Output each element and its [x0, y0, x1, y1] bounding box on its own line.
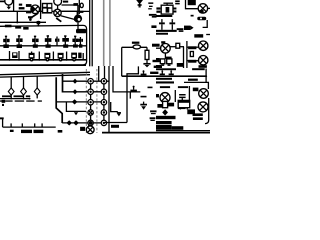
- diode D1: [8, 77, 14, 99]
- capacitor C4: [74, 17, 78, 21]
- label blob: [34, 130, 44, 133]
- label dashes: [153, 60, 161, 62]
- label blob: [21, 130, 32, 133]
- wire: [188, 86, 190, 102]
- plug P2: [73, 89, 78, 94]
- wire: [129, 92, 131, 99]
- wire: [121, 47, 123, 76]
- dark blob: [187, 109, 195, 114]
- label row: [156, 68, 176, 70]
- resistor R5: [145, 47, 149, 63]
- label row: [156, 116, 176, 119]
- wire: [186, 41, 188, 68]
- resistor R4: [5, 25, 12, 28]
- wire: [78, 0, 80, 14]
- transistor Q8: [199, 41, 208, 50]
- label AF OUT: [192, 68, 205, 70]
- main bus right: [122, 75, 207, 77]
- label blob: [10, 130, 14, 132]
- socket pin B4: [101, 110, 106, 115]
- label blob: [111, 125, 119, 128]
- capacitor C5: [15, 26, 21, 28]
- plug P5: [73, 120, 79, 125]
- label dash: [141, 96, 147, 98]
- wire: [26, 12, 31, 14]
- label: [132, 42, 140, 44]
- transistor Q3: [54, 0, 62, 5]
- connector column wires: [90, 81, 92, 126]
- label row: [156, 78, 172, 80]
- capacitor C19: [150, 110, 156, 114]
- wire: [206, 34, 210, 36]
- IF can T1: [42, 3, 53, 14]
- label: [58, 130, 63, 133]
- ground: [8, 5, 10, 7]
- transistor Q6: [198, 4, 210, 13]
- resistor R8: [190, 52, 193, 57]
- capacitor C15: [160, 70, 165, 75]
- coil L4: [45, 35, 52, 48]
- transistor Q5: [74, 15, 82, 23]
- wire: [61, 10, 90, 12]
- shield box (front end) top edge: [0, 25, 87, 65]
- plug P1: [73, 79, 78, 84]
- capacitor C3: [80, 11, 84, 13]
- diode D2: [21, 76, 27, 98]
- label dashes: [0, 100, 42, 101]
- wire: [186, 0, 199, 9]
- label dash: [148, 87, 153, 89]
- capacitor C7: [80, 127, 85, 131]
- wire: [62, 4, 79, 6]
- diagonal wire: [56, 18, 61, 22]
- trimmer CT5: [66, 52, 77, 61]
- coil L2: [16, 35, 22, 48]
- cable bracket A: [56, 77, 62, 123]
- trimmer CT4: [52, 52, 63, 61]
- wire: [0, 21, 46, 23]
- bus wire (inner): [0, 45, 87, 47]
- label bar: [151, 25, 156, 28]
- page border double line: [89, 0, 91, 66]
- coil L5: [55, 37, 59, 46]
- socket pin A2: [88, 89, 93, 94]
- label rows: [193, 113, 203, 116]
- plug P4: [66, 120, 72, 125]
- wire: [113, 66, 140, 92]
- wire: [104, 66, 106, 81]
- tick: [41, 123, 43, 127]
- connector row 3 wire: [56, 101, 106, 103]
- socket pin B2: [101, 89, 106, 94]
- label step: [177, 28, 184, 32]
- wire corner: [203, 20, 208, 27]
- label row: [156, 15, 172, 17]
- capacitor C9: [141, 70, 147, 75]
- connector row 2 wire: [63, 91, 107, 93]
- wire L inside: [111, 102, 118, 112]
- wire: [108, 66, 110, 133]
- dark can T3: [188, 0, 196, 5]
- ground: [117, 113, 121, 116]
- resistor R2: [26, 4, 32, 7]
- shield box (right of connector): [104, 80, 127, 123]
- dark text block: [156, 125, 172, 130]
- potentiometer VR1: [30, 13, 39, 19]
- connector row 1 wire: [63, 80, 110, 82]
- wire: [77, 5, 79, 11]
- plug P3: [72, 99, 78, 104]
- capacitor C12: [159, 19, 165, 30]
- wire gray bus B: [109, 0, 111, 66]
- socket pin A3: [88, 100, 93, 105]
- transistor Q10: [193, 88, 209, 99]
- label: [152, 44, 160, 47]
- shield dashed line: [96, 69, 98, 133]
- transistor Q2: [31, 5, 40, 14]
- IF can T2: [156, 3, 176, 14]
- trimmer CT1: [9, 51, 21, 61]
- speaker SP1: [76, 29, 86, 33]
- label step: [149, 14, 157, 18]
- shield dashed line: [85, 69, 87, 133]
- label row: [178, 86, 188, 88]
- resistor R1: [19, 4, 22, 6]
- wire gray bus A: [103, 0, 105, 66]
- coil L1: [3, 36, 9, 48]
- capacitor C1: [19, 7, 25, 9]
- capacitor C18 (ground cluster): [140, 102, 147, 110]
- capacitor C10: [148, 2, 153, 9]
- resistor R10: [157, 101, 174, 107]
- wire: [98, 66, 100, 81]
- capacitor C13: [169, 19, 175, 30]
- lamp PL1: [133, 45, 141, 49]
- resistor R9: [187, 60, 199, 63]
- wire: [37, 21, 39, 26]
- ground: [143, 64, 150, 68]
- wire right edge: [205, 98, 209, 124]
- wire: [0, 10, 79, 12]
- arrow terminal: [184, 26, 194, 30]
- capacitor C17: [179, 94, 186, 103]
- wire: [122, 46, 147, 48]
- diode D4: [162, 109, 168, 115]
- label row: [156, 121, 172, 124]
- diode D3: [34, 76, 40, 99]
- label: [156, 58, 160, 62]
- coil L3: [32, 36, 39, 48]
- transistor Q1: [5, 0, 13, 5]
- resistor R6: [176, 43, 180, 48]
- resistor R7: [187, 46, 199, 49]
- terminal blob: [197, 17, 206, 20]
- ground: [74, 112, 78, 115]
- transistor Q4: [54, 9, 61, 16]
- transistor Q7: [156, 41, 170, 53]
- label dashes: [172, 126, 184, 130]
- label: [156, 65, 161, 68]
- socket pin A4: [88, 110, 93, 115]
- wire (diagonal to Q5): [61, 16, 75, 20]
- wire: [40, 0, 42, 19]
- label blob: [23, 27, 28, 30]
- wire: [174, 90, 176, 102]
- socket pin B3: [101, 100, 106, 105]
- label row: [156, 33, 168, 35]
- bottom border line: [102, 132, 210, 134]
- label: [188, 79, 198, 81]
- wire: [16, 11, 18, 22]
- dark core: [178, 103, 186, 109]
- resistor R3: [77, 11, 79, 17]
- transistor Q12: [198, 102, 208, 112]
- antenna A1: [136, 0, 143, 7]
- label blob: [194, 34, 203, 37]
- bus wire: [0, 98, 30, 100]
- connector row 5 wire: [62, 122, 106, 124]
- wire corner: [127, 66, 138, 80]
- wire L to ground: [66, 102, 86, 112]
- label: [63, 1, 68, 3]
- wire: [184, 82, 208, 89]
- bus wire (lower): [0, 59, 87, 61]
- bottom-left bus: [0, 117, 56, 127]
- label row: [160, 86, 170, 88]
- wire: [205, 69, 207, 83]
- socket pin B1: [101, 79, 106, 84]
- label: [177, 63, 183, 67]
- trimmer CT6: [78, 53, 83, 60]
- label row: [156, 30, 177, 32]
- capacitor C20: [150, 117, 156, 121]
- fuse F1: [80, 3, 83, 7]
- socket pin B5: [101, 120, 106, 125]
- capacitor C2: [73, 3, 78, 6]
- capacitor C11: [175, 0, 180, 4]
- coil L6: [62, 35, 69, 48]
- box bottom inner line: [0, 64, 86, 66]
- chassis double line: [0, 72, 90, 74]
- wire: [57, 5, 59, 9]
- coil L8: [79, 37, 83, 48]
- label dash: [191, 15, 194, 17]
- capacitor C8: [130, 86, 137, 92]
- label row: [2, 95, 11, 97]
- tick: [21, 123, 23, 127]
- transistor Q11: [156, 93, 170, 103]
- wire: [170, 46, 184, 48]
- tick: [34, 123, 36, 127]
- capacitor C6: [2, 100, 6, 103]
- transformer T4: [178, 100, 190, 109]
- bottom border line 2: [156, 130, 210, 132]
- wire: [183, 47, 185, 68]
- label: [199, 65, 207, 68]
- coil L7: [72, 36, 78, 48]
- tick: [10, 123, 12, 127]
- wire: [13, 0, 15, 11]
- capacitor C14 pair: [160, 53, 172, 66]
- socket pin A5: [88, 120, 93, 125]
- jack J1: [86, 125, 94, 134]
- socket pin A1: [88, 79, 93, 84]
- capacitor C16: [169, 70, 174, 75]
- trimmer CT2: [29, 52, 35, 61]
- label row: [156, 81, 174, 83]
- trimmer CT3: [38, 52, 50, 61]
- transistor Q9: [199, 56, 208, 65]
- cable bracket B: [62, 74, 64, 93]
